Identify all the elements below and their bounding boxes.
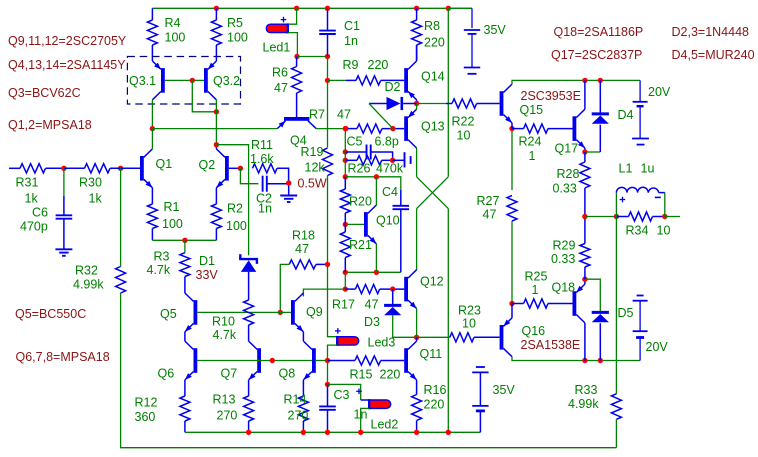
label Q7 [221, 367, 238, 381]
diode D5 [592, 312, 609, 322]
label R7 value [337, 108, 351, 122]
label R2 value [226, 219, 247, 233]
svg-text:Led3: Led3 [368, 336, 396, 350]
svg-text:47: 47 [483, 208, 497, 222]
svg-text:35V: 35V [484, 23, 507, 37]
wire Q10 base [345, 223, 364, 225]
wire C5 right [371, 152, 393, 160]
node Q17 emitter [582, 149, 587, 154]
title D2 line [672, 25, 750, 39]
svg-text:R15: R15 [350, 368, 373, 382]
dual transistor Q3 outline box [127, 57, 240, 105]
svg-text:C3: C3 [334, 388, 350, 402]
node R17 left [343, 286, 348, 291]
svg-text:2SC3953E: 2SC3953E [521, 89, 581, 103]
label R10 [212, 315, 235, 329]
resistor R1 [147, 188, 157, 241]
diode D2 [387, 97, 417, 110]
label R18 value [295, 242, 309, 256]
wire Q14 emitter [416, 100, 418, 104]
wire X left below [416, 209, 418, 270]
svg-text:C1: C1 [344, 19, 360, 33]
wire Q16 collector [512, 357, 640, 361]
svg-text:1k: 1k [89, 192, 103, 206]
wire Q1 collector [151, 129, 153, 149]
svg-text:Q5=BC550C: Q5=BC550C [15, 307, 86, 321]
node base rail R13? [270, 358, 275, 363]
resistor R22 [446, 99, 477, 108]
transistor Q4 [277, 103, 316, 129]
wire output row [585, 216, 617, 218]
label D4 [618, 108, 634, 122]
wire Led2 bottom [361, 408, 370, 432]
diode D3 [384, 305, 401, 315]
ground C6 [55, 249, 72, 256]
svg-text:20V: 20V [648, 85, 671, 99]
resistor R16 [412, 380, 422, 432]
svg-text:R23: R23 [458, 304, 481, 318]
resistor R25 [524, 299, 548, 308]
resistor R27 [507, 196, 517, 222]
node Q3.2 collector junction [214, 109, 219, 114]
label R29 value [551, 252, 575, 266]
svg-text:R21: R21 [349, 238, 372, 252]
svg-text:Q17=2SC2837P: Q17=2SC2837P [551, 48, 642, 62]
svg-text:220: 220 [380, 368, 401, 382]
label R25 value [532, 283, 539, 297]
svg-text:Q3.1: Q3.1 [129, 74, 156, 88]
svg-text:R20: R20 [349, 195, 372, 209]
node Q13 base [390, 126, 395, 131]
node bus Q18c [582, 358, 587, 363]
wire C6 top lead [63, 168, 65, 196]
label Q14 [421, 70, 445, 84]
label R31 [16, 176, 39, 190]
wire Led1 to R6 node [288, 33, 298, 57]
wire Q15 emitter [511, 123, 513, 129]
node rail Led2 [358, 430, 363, 435]
svg-text:R9: R9 [343, 58, 359, 72]
node Q1 base [118, 166, 123, 171]
wire Q11 collector [416, 337, 418, 341]
svg-text:Q6,7,8=MPSA18: Q6,7,8=MPSA18 [16, 350, 110, 364]
label C2 [256, 192, 272, 206]
wire R1 R2 bottoms [152, 239, 216, 241]
svg-text:100: 100 [227, 31, 248, 45]
node rail X [446, 430, 451, 435]
resistor R12 [180, 380, 190, 432]
svg-text:47: 47 [295, 242, 309, 256]
wire D3 bottom [393, 315, 417, 337]
svg-text:R30: R30 [79, 176, 102, 190]
svg-text:R4: R4 [165, 16, 181, 30]
label R28 [557, 167, 580, 181]
label C6 [32, 206, 48, 220]
label R9 [343, 58, 359, 72]
svg-text:D2: D2 [385, 80, 401, 94]
wire R9 stub [328, 79, 347, 81]
wire Q18 emitter [584, 279, 586, 284]
resistor R7 [346, 124, 382, 133]
battery 20V bottom [633, 296, 648, 361]
label C5 [347, 135, 363, 149]
wire to D2 anode [369, 103, 387, 105]
svg-text:Q17: Q17 [555, 142, 579, 156]
svg-text:1n: 1n [344, 34, 358, 48]
svg-text:Led2: Led2 [371, 418, 399, 432]
node rail-R5 [214, 6, 219, 11]
inductor L1 [616, 187, 664, 216]
wire C1 column down to R19 [327, 80, 329, 147]
svg-text:Q4,13,14=2SA1145Y: Q4,13,14=2SA1145Y [8, 58, 126, 72]
node Q3 base [190, 78, 195, 83]
label R11 [251, 138, 273, 152]
node R18-R19 [325, 262, 330, 267]
transistor Q13 [404, 109, 416, 148]
svg-text:0.33: 0.33 [551, 252, 575, 266]
svg-text:Q16: Q16 [522, 324, 546, 338]
capacitor comp series [393, 152, 411, 167]
wire Q13 emitter [416, 104, 418, 110]
label C1 [344, 19, 360, 33]
node R7 left [343, 126, 348, 131]
node Q2 base [238, 166, 243, 171]
svg-text:R33: R33 [575, 383, 598, 397]
title Q4 line [8, 58, 126, 72]
transistor Q10 [364, 205, 376, 244]
wire R18 node to Led3 [328, 264, 338, 336]
node C5 left [343, 149, 348, 154]
label R32 [75, 264, 98, 278]
label 20V bottom [646, 340, 669, 354]
svg-text:1k: 1k [25, 192, 39, 206]
label D2 [385, 80, 401, 94]
svg-text:270: 270 [288, 409, 309, 423]
label R30 value [89, 192, 103, 206]
label C3 value [354, 408, 368, 422]
resistor R10 [244, 300, 254, 325]
wire R7 to Q13 base [382, 128, 404, 130]
wire input stub [9, 167, 20, 169]
wire Q10 collector [375, 177, 377, 205]
svg-text:10: 10 [462, 317, 476, 331]
wire R17 to Q12 base [380, 288, 405, 290]
svg-text:Q9,11,12=2SC2705Y: Q9,11,12=2SC2705Y [8, 34, 127, 48]
label Q3.1 [129, 74, 156, 88]
svg-text:Q14: Q14 [421, 70, 445, 84]
transistor Q12 [404, 270, 416, 309]
svg-text:Q3=BCV62C: Q3=BCV62C [8, 86, 81, 100]
node rail-C1 [325, 6, 330, 11]
node box bottom left [343, 270, 348, 275]
svg-text:D4,5=MUR240: D4,5=MUR240 [672, 48, 755, 62]
wire Q3.2 collector [215, 100, 217, 145]
wire R33 to bottom rail [615, 419, 617, 447]
wire output down [615, 217, 617, 394]
svg-text:Q15: Q15 [520, 103, 544, 117]
svg-text:Q18=2SA1186P: Q18=2SA1186P [554, 25, 644, 39]
node R24 left [509, 126, 514, 131]
label R34 value [657, 224, 671, 238]
node box top left [343, 174, 348, 179]
svg-text:R8: R8 [424, 19, 440, 33]
wire R25 left lead [512, 303, 524, 305]
node Q9 base [278, 310, 283, 315]
label L1 [619, 162, 633, 176]
label R22 [452, 115, 475, 129]
label R4 [165, 16, 181, 30]
resistor R15 [355, 356, 381, 365]
transistor Q3.2 [204, 61, 216, 100]
wire R18 right [316, 263, 328, 265]
node B-R7 [343, 126, 348, 131]
svg-text:R25: R25 [525, 270, 548, 284]
label R6 [272, 66, 288, 80]
transistor Q15 [500, 84, 512, 123]
svg-text:Q1: Q1 [156, 157, 173, 171]
resistor R13 [244, 380, 254, 432]
wire R24 to Q17 base [548, 128, 573, 130]
resistor R24 [524, 124, 548, 133]
svg-text:R26: R26 [348, 162, 371, 176]
title Q1 line [8, 118, 92, 132]
svg-text:470p: 470p [20, 220, 48, 234]
label Led2 plus [356, 389, 362, 395]
label Q4 [290, 134, 307, 148]
wire X diagonal B [417, 177, 449, 209]
node rowtop D4 [598, 78, 603, 83]
transistor Q1 [140, 149, 152, 188]
svg-text:R7: R7 [309, 108, 325, 122]
node Q2 collector [214, 142, 219, 147]
resistor R26 [357, 156, 382, 165]
node Q16 base [509, 301, 514, 306]
label R5 [227, 16, 243, 30]
label Q13 [421, 120, 445, 134]
svg-text:R13: R13 [213, 393, 236, 407]
svg-text:R17: R17 [332, 298, 355, 312]
svg-text:R10: R10 [212, 315, 235, 329]
label R21 [349, 238, 372, 252]
wire Led2 top lead [361, 399, 370, 401]
wire Q3 base to Q3.2 collector [192, 80, 216, 111]
resistor R32 [116, 267, 126, 294]
node rail-Led1 [294, 6, 299, 11]
transistor Q9 [291, 293, 303, 332]
svg-text:R29: R29 [553, 239, 576, 253]
wire R32 to bottom rail [121, 293, 617, 448]
node R11-C2 [286, 180, 291, 185]
label R24 value [529, 149, 536, 163]
resistor R21 [340, 224, 350, 272]
svg-text:47: 47 [274, 81, 288, 95]
wire R31 to node [46, 167, 64, 169]
label R7 [309, 108, 325, 122]
label R28 value [553, 182, 577, 196]
resistor R6 [292, 57, 302, 104]
wire D5 bottom [599, 323, 601, 360]
svg-text:100: 100 [162, 217, 183, 231]
wire D3 top [392, 289, 394, 304]
label Q15 [520, 103, 544, 117]
svg-text:4.7k: 4.7k [213, 328, 237, 342]
transistor Q14 [404, 61, 416, 100]
resistor R34 [629, 212, 653, 221]
resistor R14 [298, 380, 308, 432]
wire R15 to Q11 base [381, 360, 405, 362]
svg-text:Q7: Q7 [221, 367, 238, 381]
label R1 value [162, 217, 183, 231]
node rail R13 [246, 430, 251, 435]
wire C2 left lead [240, 168, 258, 183]
label R20 [349, 195, 372, 209]
node output L1 right [662, 214, 667, 219]
resistor R29 [580, 217, 590, 280]
node Q10 base [343, 222, 348, 227]
battery 20V top [632, 80, 649, 144]
wire base rail Q6-Q8 [197, 360, 312, 362]
label R15 [350, 368, 373, 382]
node output left [582, 214, 587, 219]
label R2 [227, 202, 243, 216]
svg-text:D5: D5 [618, 306, 634, 320]
transistor Q5 [185, 293, 197, 332]
node Q1 collector [150, 126, 155, 131]
label C6 value [20, 220, 48, 234]
wire R27 to Q16 base [511, 221, 513, 304]
svg-text:D4: D4 [618, 108, 634, 122]
ground R11-C2 [280, 186, 297, 203]
node rail R14 [301, 430, 306, 435]
svg-text:C6: C6 [32, 206, 48, 220]
label Led1 [263, 41, 291, 55]
label R33 [575, 383, 598, 397]
title D4 line [672, 48, 755, 62]
title Q18 line [554, 25, 644, 39]
wire R22 to Q15 base [477, 103, 500, 105]
svg-text:R31: R31 [16, 176, 39, 190]
wire Q9 collector top [303, 289, 345, 296]
svg-text:Q6: Q6 [158, 367, 175, 381]
node R26 left [343, 158, 348, 163]
label R22 value [457, 129, 471, 143]
wire R18 left [280, 264, 289, 312]
wire Led1 node to C1 node [297, 56, 328, 58]
wire X diagonal A [417, 177, 449, 209]
label R26 value [376, 162, 404, 176]
svg-text:1: 1 [532, 283, 539, 297]
label Q10 [376, 214, 400, 228]
node R26 right [390, 158, 395, 163]
wire Q5 base cont [280, 311, 291, 313]
svg-text:R16: R16 [424, 383, 447, 397]
label R12 [135, 396, 158, 410]
svg-text:270: 270 [217, 409, 238, 423]
LED Led1 [266, 23, 287, 33]
title Q3 line [8, 86, 81, 100]
label R30 [79, 176, 102, 190]
label R6 value [274, 81, 288, 95]
label R9 value [368, 58, 389, 72]
svg-text:D2,3=1N4448: D2,3=1N4448 [672, 25, 750, 39]
resistor R5 [211, 8, 221, 56]
wire D4 top [599, 80, 601, 112]
title Q6 line [16, 350, 110, 364]
label 20V top [648, 85, 671, 99]
node rail C3 [325, 430, 330, 435]
svg-text:0.33: 0.33 [553, 182, 577, 196]
label C1 value [344, 34, 358, 48]
node rail R16 [414, 430, 419, 435]
label R17 value [365, 298, 379, 312]
label R27 [477, 194, 500, 208]
wire R26 left lead [345, 159, 357, 161]
svg-text:Q9: Q9 [306, 305, 323, 319]
label Q12 [420, 275, 444, 289]
node rail-R8 [414, 6, 419, 11]
node R9 tap [325, 78, 330, 83]
wire Q2 base [229, 167, 241, 169]
svg-text:R1: R1 [164, 200, 180, 214]
wire Q2 collector to D1 branch [216, 145, 248, 256]
label R8 [424, 19, 440, 33]
label R3 [154, 250, 170, 264]
label R12 value [135, 410, 156, 424]
wire R3 top [184, 240, 186, 252]
resistor R11 [253, 164, 278, 173]
svg-text:1.6k: 1.6k [250, 152, 274, 166]
svg-text:6.8p: 6.8p [375, 135, 399, 149]
label Q15 type [521, 89, 581, 103]
svg-text:220: 220 [424, 398, 445, 412]
label Q8 [279, 367, 296, 381]
svg-text:Q2: Q2 [199, 158, 216, 172]
wire Q5 emitter down [184, 332, 186, 341]
resistor R20 [340, 177, 350, 225]
capacitor C2 [263, 176, 267, 192]
capacitor C6 [56, 196, 73, 249]
svg-text:470k: 470k [376, 162, 404, 176]
node Q10 collector top [374, 174, 379, 179]
label Led2 [371, 418, 399, 432]
svg-text:R22: R22 [452, 115, 475, 129]
LED Led2 [369, 399, 391, 409]
wire Q18 collector [584, 323, 586, 361]
wire +35V top rail [152, 7, 472, 9]
node Q18 emitter [582, 277, 587, 282]
label Q18 [552, 281, 576, 295]
label R17 [332, 298, 355, 312]
node D2 cathode [414, 101, 419, 106]
label Q9 [306, 305, 323, 319]
wire emitter rail [185, 431, 481, 433]
svg-text:360: 360 [135, 410, 156, 424]
svg-text:R27: R27 [477, 194, 500, 208]
wire B column top [344, 129, 346, 161]
wire R24 left lead [512, 128, 524, 130]
label Q16 [522, 324, 546, 338]
svg-text:220: 220 [368, 58, 389, 72]
resistor R18 [289, 260, 316, 269]
svg-text:R34: R34 [626, 224, 649, 238]
svg-text:Q5: Q5 [160, 307, 177, 321]
label R18 [292, 229, 315, 243]
label R10 value [213, 328, 237, 342]
transistor Q6 [185, 341, 197, 380]
label R15 value [380, 368, 401, 382]
LED Led3 [337, 336, 359, 346]
wire R30 to Q1 base [110, 167, 140, 169]
